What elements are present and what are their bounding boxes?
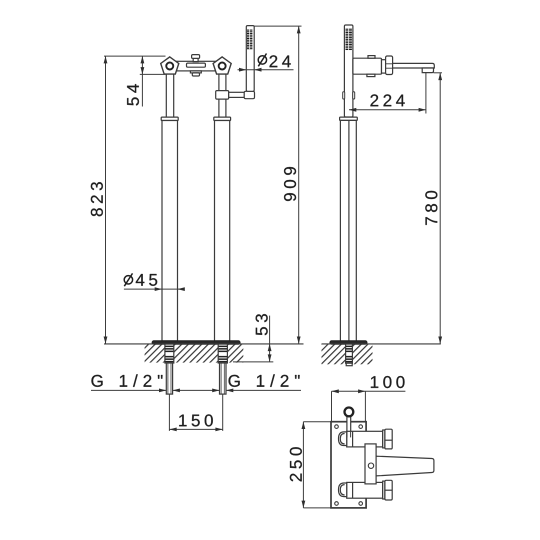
dimension texts	[91, 55, 438, 481]
left threaded stub	[165, 344, 174, 363]
G leader left	[91, 389, 166, 391]
arrow 100 left	[332, 389, 339, 393]
body top stem	[368, 56, 375, 59]
ext line spout level	[434, 72, 443, 74]
screw hole TR	[359, 425, 363, 429]
knob 1 ring	[383, 430, 385, 448]
label plate	[187, 63, 206, 67]
valve 2 dome cap	[339, 483, 347, 497]
text 100	[371, 376, 405, 388]
wand grip knurling (front)	[247, 30, 252, 49]
knob 2 ring	[383, 481, 385, 499]
arrow 780 top	[438, 73, 442, 80]
ext line 250 top	[303, 421, 330, 423]
text 823	[91, 182, 103, 216]
body bottom stem	[367, 74, 375, 76]
side floor line	[322, 343, 441, 345]
right column flange	[214, 117, 231, 120]
left column flange	[161, 117, 178, 120]
dim line 53	[269, 316, 271, 362]
knob 1 disc	[385, 429, 392, 449]
arrow 823 top	[104, 56, 108, 63]
arrow Ø45 right	[178, 287, 185, 291]
text 780	[425, 191, 437, 225]
dim line 54	[141, 56, 143, 106]
wand (side)	[344, 25, 353, 117]
side column	[340, 120, 356, 341]
text 54	[127, 84, 139, 105]
mounting plate	[331, 422, 366, 508]
arrow 780 bottom	[438, 337, 442, 344]
text G 1/2 right	[229, 374, 300, 386]
arrow G right	[226, 389, 233, 393]
dim line 224	[349, 109, 426, 111]
arrow 100 right	[358, 389, 365, 393]
handshower wand (front)	[246, 26, 254, 92]
arrow Ø24 left	[239, 68, 246, 72]
knob ring (side)	[382, 60, 386, 73]
handshower holder block	[244, 91, 254, 98]
arrowheads	[104, 26, 443, 508]
side column inner line	[348, 120, 350, 341]
valve 1 dome cap	[339, 432, 347, 446]
dim line 100	[332, 390, 406, 392]
left supply tube	[166, 363, 172, 394]
base plate (side)	[330, 341, 367, 344]
centerline right tube	[222, 394, 224, 431]
right knob ring	[219, 63, 226, 70]
arrow G mid-right	[212, 389, 219, 393]
text 45 of O45	[136, 274, 157, 286]
text 250	[290, 447, 302, 481]
holder stem (plan)	[347, 417, 351, 438]
centerline left tube	[168, 394, 170, 431]
left knob ring	[166, 63, 173, 70]
arrow G mid-left	[173, 389, 180, 393]
holder clip left	[343, 92, 345, 99]
diverter junction block on right neck	[216, 91, 229, 100]
top extension line front	[104, 55, 166, 57]
arrow 53 bottom	[268, 354, 272, 361]
left column	[162, 121, 178, 342]
knob 1 disc midline	[385, 439, 392, 441]
valve 2 collar line	[352, 482, 354, 498]
leader line Ø45	[124, 288, 183, 290]
knob disc (side)	[386, 56, 393, 75]
text G 1/2 left	[91, 374, 162, 386]
center body (plan)	[365, 444, 376, 484]
ext line 54 bottom	[140, 73, 166, 75]
valve 1 collar line	[352, 431, 354, 447]
ext line 224 right	[425, 73, 427, 114]
knob 2 disc	[385, 480, 392, 500]
arrow 54 top	[141, 56, 145, 63]
arrow 53 top	[268, 344, 272, 351]
screw hole BR	[359, 502, 363, 506]
text 24 of O24	[270, 55, 291, 67]
arrow 150 left	[169, 428, 176, 432]
arm to handshower holder	[229, 92, 245, 97]
diameter symbol of Ø24	[258, 54, 266, 67]
floor line	[104, 343, 304, 345]
holder ring (plan)	[345, 408, 354, 417]
center body screw	[368, 463, 373, 468]
valve 2 dome inner arc	[340, 485, 344, 495]
wand grip knurling (side)	[346, 29, 352, 49]
holder clip right	[353, 92, 355, 99]
arrow 224 right	[419, 108, 426, 112]
arrow 909 top	[297, 26, 301, 33]
text 224	[370, 94, 404, 106]
arrow 250 top	[302, 422, 306, 429]
arrow 224 left	[349, 108, 356, 112]
arrow 250 bottom	[302, 501, 306, 508]
spout (plan)	[376, 456, 434, 476]
holder stem into valve 1	[346, 431, 348, 437]
screw hole BL	[335, 502, 339, 506]
ext line 100 right	[364, 391, 366, 421]
front floor hatch	[145, 344, 244, 363]
spout flange below body	[190, 71, 201, 73]
G leader middle	[173, 389, 220, 391]
arrow Ø24 right	[254, 68, 261, 72]
diverter cap	[192, 55, 200, 59]
right supply tube	[220, 363, 227, 394]
spout knob below body	[192, 73, 199, 76]
left neck	[166, 72, 173, 117]
diameter symbol of Ø45	[124, 273, 132, 286]
text 909	[284, 167, 296, 201]
spout outlet	[422, 68, 433, 73]
valve 1 cylinder (plan)	[347, 431, 383, 447]
dim line 823	[105, 56, 107, 344]
valve 1 dome inner arc	[340, 434, 344, 444]
dim line Ø24	[238, 69, 294, 71]
spout lines through disc	[386, 63, 393, 65]
text 150	[179, 414, 213, 426]
dim line 250	[302, 422, 304, 508]
ext line thread bottom	[233, 361, 273, 363]
G leader right	[226, 389, 301, 391]
arrow Ø45 left	[155, 287, 162, 291]
valve 2 cylinder (plan)	[347, 482, 383, 498]
arrow 54 bottom	[141, 67, 145, 74]
side stub tube end	[346, 363, 352, 366]
right neck	[219, 72, 226, 117]
arrow 150 right	[215, 428, 222, 432]
dim line 150	[169, 428, 222, 430]
body bar between knobs	[176, 61, 216, 71]
diverter stem	[193, 58, 198, 61]
arrow G left	[159, 389, 166, 393]
valve body (side)	[353, 58, 382, 74]
right knob pentagon	[213, 57, 231, 74]
ext line 250 bottom	[303, 507, 330, 509]
side column flange	[340, 117, 358, 120]
arrow 909 bottom	[297, 337, 301, 344]
side floor hatch	[322, 344, 373, 364]
ext line 100 left	[331, 391, 333, 421]
base plate (front)	[152, 341, 240, 344]
left knob pentagon	[161, 57, 179, 74]
side threaded stub	[346, 344, 353, 363]
spout bar (side)	[393, 63, 435, 68]
screw hole TL	[335, 425, 339, 429]
dim line 909	[298, 26, 300, 344]
dim line 780	[439, 73, 441, 344]
right column	[215, 121, 230, 342]
text 53	[256, 314, 268, 335]
ext line wand top	[254, 25, 301, 27]
arrow 823 bottom	[104, 337, 108, 344]
right threaded stub	[218, 344, 227, 363]
knob 2 disc midline	[385, 489, 392, 491]
